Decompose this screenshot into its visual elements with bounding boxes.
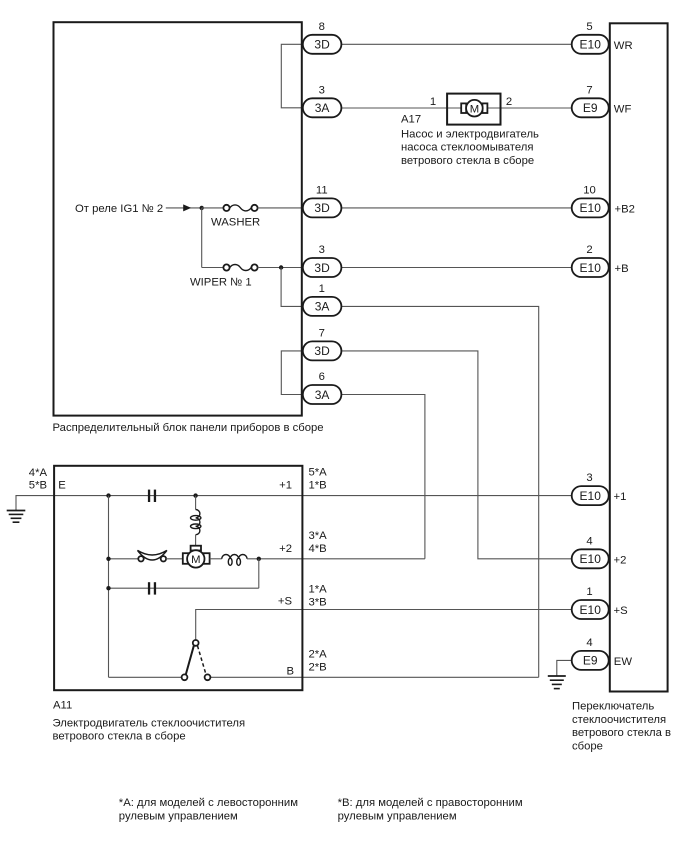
wire 3D7 to switch +2	[341, 351, 571, 559]
svg-text:7: 7	[319, 327, 325, 339]
node jumper 3D3	[279, 265, 283, 269]
breaker bimetal	[138, 550, 167, 561]
connector E9 pin4	[572, 651, 609, 670]
connector 3A pin3	[303, 98, 342, 117]
svg-text:4*A: 4*A	[29, 467, 48, 479]
svg-text:3: 3	[586, 472, 592, 484]
connector 3D pin7	[303, 341, 342, 360]
wire +1 row	[54, 495, 572, 497]
svg-text:E10: E10	[580, 489, 602, 503]
svg-text:11: 11	[316, 184, 328, 196]
svg-text:E10: E10	[580, 38, 602, 52]
svg-text:Насос и электродвигатель: Насос и электродвигатель	[401, 128, 539, 140]
capacitor C1	[148, 490, 156, 502]
svg-text:сборе: сборе	[572, 740, 603, 752]
capacitor C2	[148, 582, 156, 594]
connector 3D pin11	[303, 198, 342, 217]
wire jumper 3D7-3A6	[281, 351, 303, 395]
svg-text:B: B	[286, 665, 294, 677]
svg-text:M: M	[470, 103, 479, 115]
node +2 left	[106, 557, 110, 561]
wire through A17	[448, 107, 500, 109]
inductor L2 horizontal	[222, 555, 247, 566]
connector E10 pin2	[572, 258, 609, 277]
svg-text:+2: +2	[614, 554, 627, 566]
wire fuse to 3D11	[258, 207, 303, 209]
connector E10 pin3	[572, 486, 609, 505]
svg-text:8: 8	[319, 21, 325, 33]
node washer junction	[200, 206, 204, 210]
fuse WIPER No1	[223, 264, 257, 270]
switch pivot	[193, 640, 199, 646]
svg-text:+1: +1	[279, 480, 292, 492]
svg-text:E9: E9	[583, 101, 598, 115]
svg-text:3D: 3D	[314, 38, 330, 52]
switch park blade dashed	[198, 646, 207, 675]
wiper motor box A11	[54, 466, 302, 690]
svg-text:3A: 3A	[315, 300, 330, 314]
svg-text:3D: 3D	[314, 201, 330, 215]
svg-text:насоса стеклоомывателя: насоса стеклоомывателя	[401, 142, 533, 154]
wire row1 3D8 to E10-5	[341, 43, 571, 45]
svg-text:рулевым управлением: рулевым управлением	[119, 810, 238, 822]
svg-text:A11: A11	[53, 700, 72, 712]
svg-text:4: 4	[586, 637, 592, 649]
wire left vertical E bus	[108, 496, 110, 678]
svg-text:ветрового стекла в: ветрового стекла в	[572, 727, 671, 739]
switch contact A	[182, 674, 188, 680]
wire fuse to 3D3	[258, 267, 303, 269]
svg-text:3A: 3A	[315, 388, 330, 402]
connector E10 pin5	[572, 35, 609, 54]
wire +2 row to box edge	[247, 558, 425, 560]
wire breaker to motor	[166, 558, 183, 560]
connector E10 pin1	[572, 600, 609, 619]
ground E left	[7, 496, 54, 523]
svg-text:+1: +1	[614, 491, 627, 503]
label 5A1B	[309, 466, 328, 491]
wire cap branch vertical	[258, 559, 260, 588]
switch park blade	[186, 646, 194, 675]
svg-text:Переключатель: Переключатель	[572, 701, 654, 713]
label 2A2B	[309, 649, 328, 674]
svg-text:3D: 3D	[314, 261, 330, 275]
svg-text:стеклоочистителя: стеклоочистителя	[572, 714, 666, 726]
connector E10 pin4	[572, 549, 609, 568]
svg-text:1*A: 1*A	[309, 583, 328, 595]
svg-text:2: 2	[586, 244, 592, 256]
wire jumper 3D8-3A3	[281, 44, 303, 108]
svg-text:+B: +B	[615, 263, 629, 275]
wire coil to motor	[195, 535, 197, 546]
label 3A4B	[309, 530, 328, 555]
footnote B	[338, 797, 523, 822]
svg-text:E10: E10	[580, 603, 602, 617]
svg-text:*A: для моделей с левосторонни: *A: для моделей с левосторонним	[119, 797, 298, 809]
connector E10 pin10	[572, 198, 609, 217]
svg-text:E: E	[58, 479, 66, 491]
wiper switch box	[610, 23, 668, 691]
wire IG1 relay feed with arrow	[166, 204, 202, 211]
svg-text:Электродвигатель стеклоочистит: Электродвигатель стеклоочистителя	[53, 718, 246, 730]
wire B row left	[109, 676, 182, 678]
wire +S row	[196, 610, 572, 641]
connector 3A pin1	[303, 297, 342, 316]
svg-text:WASHER: WASHER	[211, 217, 260, 229]
wire 3A6 to motor +2	[341, 395, 425, 559]
svg-text:WF: WF	[614, 103, 632, 115]
svg-text:E10: E10	[580, 552, 602, 566]
fuse WASHER	[223, 205, 257, 211]
wire 3A1 to B net	[341, 306, 538, 677]
wire motor to coil	[210, 558, 222, 560]
svg-text:EW: EW	[614, 656, 633, 668]
svg-text:3*A: 3*A	[309, 530, 328, 542]
svg-text:5*A: 5*A	[309, 466, 328, 478]
label 4A5B	[29, 467, 48, 492]
svg-text:1: 1	[319, 283, 325, 295]
svg-text:рулевым управлением: рулевым управлением	[338, 810, 457, 822]
wire washer row to fuse	[202, 207, 224, 209]
wire motor feed vertical	[195, 496, 197, 510]
svg-text:3D: 3D	[314, 344, 330, 358]
wire +2 row inside motor box	[109, 558, 139, 560]
svg-text:M: M	[191, 554, 200, 566]
wire wiper row to fuse	[202, 267, 224, 269]
svg-text:3: 3	[319, 244, 325, 256]
svg-text:+B2: +B2	[615, 203, 635, 215]
wire row2 A17 to E9-7	[500, 107, 572, 109]
svg-text:2: 2	[506, 96, 512, 108]
wire washer junction down	[201, 208, 203, 268]
inductor L1 vertical	[191, 510, 201, 535]
node +1 motor branch	[193, 493, 197, 497]
svg-text:A17: A17	[401, 113, 421, 125]
svg-text:3*B: 3*B	[309, 596, 327, 608]
svg-text:4*B: 4*B	[309, 543, 327, 555]
svg-text:4: 4	[586, 535, 592, 547]
wire row4 3D3 to E10-2	[341, 267, 571, 269]
svg-text:ветрового стекла в сборе: ветрового стекла в сборе	[401, 155, 534, 167]
svg-text:2*A: 2*A	[309, 649, 328, 661]
svg-text:+2: +2	[279, 543, 292, 555]
wire cap row	[109, 587, 259, 589]
washer pump A17	[447, 94, 500, 125]
svg-text:E10: E10	[580, 201, 602, 215]
ground EW	[548, 676, 566, 689]
junction block box	[54, 22, 302, 415]
svg-text:7: 7	[586, 84, 592, 96]
svg-text:1*B: 1*B	[309, 479, 327, 491]
connector E9 pin7	[572, 98, 609, 117]
svg-text:5: 5	[586, 21, 592, 33]
svg-text:2*B: 2*B	[309, 661, 327, 673]
svg-text:Распределительный блок панели: Распределительный блок панели приборов в…	[53, 422, 324, 434]
svg-text:+S: +S	[278, 596, 293, 608]
svg-text:E9: E9	[583, 654, 598, 668]
wire row2 3A3 to A17	[341, 107, 448, 109]
node +2 cap branch	[257, 557, 261, 561]
svg-text:1: 1	[430, 96, 436, 108]
svg-text:WR: WR	[614, 40, 633, 52]
motor M1 wiper	[183, 546, 210, 568]
label 1A3B	[309, 583, 328, 608]
svg-text:ветрового стекла в сборе: ветрового стекла в сборе	[53, 731, 186, 743]
connector 3A pin6	[303, 385, 342, 404]
node +1 left	[106, 493, 110, 497]
wire B row right	[210, 676, 538, 678]
switch contact B	[205, 674, 211, 680]
svg-text:E10: E10	[580, 261, 602, 275]
svg-text:+S: +S	[614, 605, 629, 617]
node cap row left	[106, 586, 110, 590]
svg-text:5*B: 5*B	[29, 480, 47, 492]
footnote A	[119, 797, 298, 822]
svg-text:3A: 3A	[315, 101, 330, 115]
wire EW to ground	[557, 660, 572, 676]
svg-text:*B: для моделей с правосторонн: *B: для моделей с правосторонним	[338, 797, 523, 809]
svg-text:WIPER № 1: WIPER № 1	[190, 277, 252, 289]
svg-text:10: 10	[583, 184, 596, 196]
svg-text:От реле IG1 № 2: От реле IG1 № 2	[75, 203, 163, 215]
connector 3D pin8	[303, 35, 342, 54]
svg-text:1: 1	[586, 586, 592, 598]
connector 3D pin3	[303, 258, 342, 277]
wire jumper 3D3-3A1	[281, 268, 303, 307]
svg-text:6: 6	[319, 371, 325, 383]
wire row3 3D11 to E10-10	[341, 207, 571, 209]
svg-text:3: 3	[319, 84, 325, 96]
